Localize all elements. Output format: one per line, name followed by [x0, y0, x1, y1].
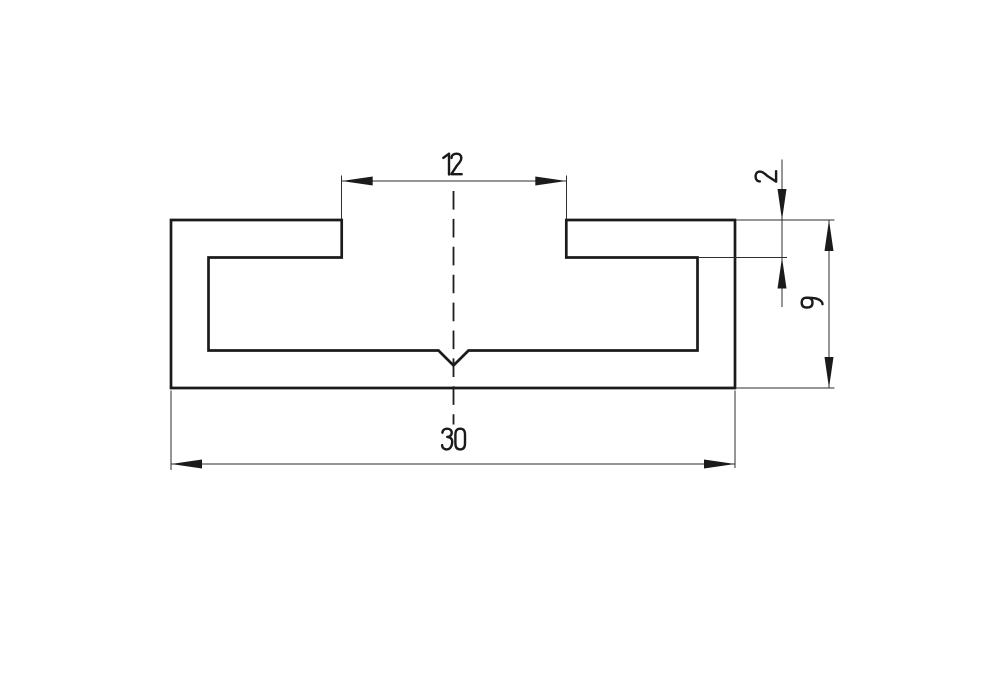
profile outline channel cross-section	[171, 220, 735, 388]
arrow right of dim 12	[535, 177, 566, 186]
extension line left of dim 12	[341, 176, 343, 219]
dimension text 12	[443, 154, 461, 175]
extension line right of dim 30	[734, 391, 736, 469]
arrow upper of dim 2 pointing down	[778, 189, 787, 220]
extension line middle right for dim 2	[699, 257, 787, 259]
centerline dashed	[453, 191, 455, 425]
extension line top right for dims 2 and 9	[737, 219, 835, 221]
arrow right of dim 30	[704, 460, 735, 469]
arrow left of dim 12	[342, 177, 373, 186]
extension line bottom right for dim 9	[737, 387, 835, 389]
arrow lower of dim 2 pointing up	[778, 258, 787, 289]
dimension line 12	[342, 180, 567, 182]
dimension text 9 rotated	[802, 298, 823, 308]
arrow top of dim 9 pointing up	[825, 220, 834, 251]
extension line right of dim 12	[565, 176, 567, 219]
arrow bottom of dim 9 pointing down	[825, 357, 834, 388]
arrow left of dim 30	[171, 460, 202, 469]
dimension line 30	[171, 463, 735, 465]
dimension text 30	[442, 429, 465, 450]
dimension line 9	[828, 220, 830, 388]
dimension line 2	[781, 160, 783, 307]
extension line left of dim 30	[170, 391, 172, 471]
dimension text 2 rotated	[756, 171, 777, 181]
